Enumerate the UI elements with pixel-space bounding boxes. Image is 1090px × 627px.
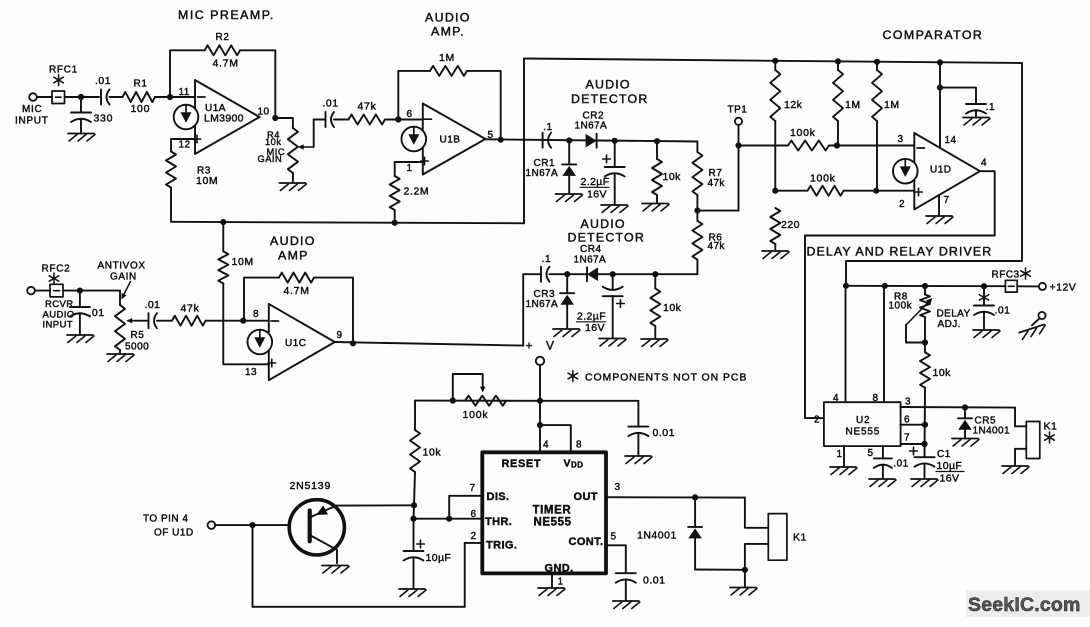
resistor 47k u1c (172, 316, 206, 326)
wire detector node to TP1 (697, 146, 738, 211)
resistor R2 4.7M (205, 45, 240, 55)
terminal TO PIN 4 OF U1D (208, 521, 216, 529)
capacitor .01 mic coupling (100, 90, 102, 105)
ground under K1 right (1002, 465, 1028, 467)
svg-text:100k: 100k (810, 173, 836, 185)
svg-text:LM3900: LM3900 (204, 113, 244, 125)
capacitor 2.2uF 16V detector 1 (614, 141, 616, 167)
wire 47k to pin 8 (206, 320, 269, 322)
svg-text:COMPARATOR: COMPARATOR (883, 28, 984, 42)
diode 1N4001 relay (694, 497, 696, 527)
diode CR3 1N67A to ground (566, 274, 568, 293)
node pin 10 output (272, 115, 278, 121)
svg-text:9: 9 (337, 330, 343, 341)
resistor 12k (774, 61, 776, 70)
wire cap to 47k (157, 320, 172, 322)
wire TRIG stub (465, 543, 483, 607)
svg-text:6: 6 (407, 109, 413, 120)
ground under 330 (68, 133, 94, 135)
resistor 4.7M feedback u1c wire (242, 320, 245, 322)
svg-text:.1: .1 (986, 101, 996, 113)
svg-text:0.01: 0.01 (653, 427, 675, 439)
wire base node down (252, 525, 254, 607)
svg-text:11: 11 (179, 87, 190, 98)
minus sign U1A pin 11 (198, 96, 206, 98)
svg-text:ANTIVOX: ANTIVOX (98, 261, 146, 272)
wire to R6 bottom (655, 273, 697, 275)
svg-text:.01: .01 (323, 98, 339, 110)
svg-text:47k: 47k (358, 101, 377, 113)
wire pin 8 u2 (883, 286, 885, 402)
node 1M b bottom (873, 188, 879, 194)
svg-text:100k: 100k (790, 127, 816, 139)
resistor 10M bias u1c (222, 223, 224, 251)
wire OUT pin 3 row (606, 496, 745, 498)
wire pin 14 from rail (939, 62, 941, 147)
node rail 1M b (874, 59, 880, 65)
svg-text:DETECTOR: DETECTOR (568, 231, 646, 245)
IC U2 NE555 box (824, 402, 901, 446)
wire K1 return (745, 544, 768, 570)
svg-text:.01: .01 (145, 299, 161, 311)
ground under CR5 (952, 438, 978, 440)
asterisk RFC3 (1025, 268, 1027, 279)
inductor RFC3 (1005, 280, 1017, 292)
wire U1C output to detector 2 (335, 342, 523, 346)
svg-text:10k: 10k (933, 367, 952, 379)
svg-text:4.7M: 4.7M (213, 58, 239, 70)
svg-text:RFC3: RFC3 (992, 270, 1020, 281)
svg-text:10µF: 10µF (937, 460, 963, 472)
plus sign 2.2uF det2 (617, 303, 625, 305)
svg-text:CONT.: CONT. (569, 536, 604, 548)
node pin 6 (395, 116, 401, 122)
wire to K1 right (1015, 408, 1026, 427)
svg-text:3: 3 (615, 482, 621, 493)
svg-text:7: 7 (470, 483, 476, 494)
wire RFC1 to node (65, 96, 100, 98)
node diode 1N4001 (692, 494, 698, 500)
node 10k det2 (652, 271, 658, 277)
node pin 8 (240, 318, 246, 324)
svg-text:16V: 16V (585, 322, 605, 334)
asterisk RFC1 not on PCB (58, 75, 60, 86)
wire K1 right return (1015, 449, 1026, 465)
resistor 10k detector 2 (654, 274, 656, 288)
diode CR5 1N4001 (964, 407, 966, 418)
svg-text:DELAY: DELAY (937, 309, 971, 320)
wire pin 7 stub (901, 443, 925, 445)
wire top rail right edge to +12V rail (846, 63, 1022, 286)
ground under .1 (963, 117, 989, 119)
+12V supply rail (846, 285, 1005, 287)
svg-text:1M: 1M (439, 52, 455, 64)
ground under 2N5139 (322, 565, 348, 567)
inductor RFC2 (50, 284, 63, 297)
svg-text:CR4: CR4 (580, 244, 602, 255)
wire 2.2M to bias rail (394, 210, 396, 223)
ground under .01 rfc3 (973, 329, 999, 331)
ground under 0.01 supply (625, 455, 651, 457)
antivox pointer arrow (123, 282, 131, 298)
wire chassis aux (1032, 318, 1040, 325)
node rail 12k (772, 58, 778, 64)
svg-text:AUDIO: AUDIO (581, 217, 626, 231)
ground under 10uF (399, 588, 425, 590)
ground under 10k det2 (641, 338, 667, 340)
svg-text:.01: .01 (995, 305, 1011, 317)
ground under R5 (107, 353, 133, 355)
wire comparator minus row (739, 145, 789, 147)
svg-text:10M: 10M (196, 175, 218, 187)
capacitor .01 u2 pin5 (874, 457, 892, 459)
wire pin 6 stub (901, 424, 925, 426)
2N5139 emitter arrow (316, 505, 328, 515)
svg-text:AMP: AMP (278, 249, 309, 263)
wire U1D output to U2 trigger (805, 171, 995, 418)
capacitor 10uF timer (413, 519, 415, 551)
svg-text:12: 12 (179, 139, 191, 150)
ground under .01 rcvr (67, 334, 93, 336)
ground under u2 pin1 (830, 466, 856, 468)
svg-text:10µF: 10µF (426, 552, 452, 564)
terminal +V (536, 357, 544, 365)
ground under CR3 (553, 328, 579, 330)
wire 1M to output (467, 71, 501, 140)
wire pin 4 u2 (845, 286, 847, 402)
R4 wiper arrow (300, 146, 314, 148)
wire out to K1 (745, 498, 768, 528)
node rail left (843, 283, 849, 289)
svg-text:.01: .01 (894, 459, 909, 470)
svg-text:SeekIC.com: SeekIC.com (968, 594, 1081, 616)
svg-text:2: 2 (471, 531, 477, 542)
svg-text:2.2µF: 2.2µF (577, 311, 606, 323)
capacitor .1 detector 1 (542, 133, 544, 148)
resistor 10k u2 (924, 343, 926, 353)
svg-text:+: + (526, 339, 533, 353)
svg-text:GAIN: GAIN (110, 272, 137, 283)
node .1 branch (937, 85, 943, 91)
resistor 2.2M (390, 176, 400, 210)
svg-text:.01: .01 (89, 307, 105, 319)
wire to R7 (696, 142, 698, 153)
svg-text:1M: 1M (845, 99, 861, 111)
svg-text:DETECTOR: DETECTOR (571, 92, 649, 106)
ground under 220 (762, 250, 788, 252)
relay K1 coil right box (1026, 422, 1040, 459)
svg-text:4: 4 (833, 393, 839, 404)
node R8 bottom (922, 339, 928, 345)
ground under .01 u2 (869, 478, 895, 480)
svg-text:RFC1: RFC1 (49, 65, 78, 76)
svg-text:TP1: TP1 (728, 105, 748, 116)
node base junction (249, 522, 255, 528)
capacitor .01 U1C coupling (135, 320, 149, 322)
svg-text:7: 7 (944, 195, 950, 206)
wire CONT stub (606, 545, 626, 573)
wire 47k to pin 6 (385, 119, 423, 121)
potentiometer R8 100k DELAY ADJ (924, 286, 926, 295)
capacitor 0.01 cont (616, 572, 636, 574)
svg-text:13: 13 (245, 367, 257, 378)
svg-text:INPUT: INPUT (43, 319, 74, 330)
node bias rail 10M (220, 219, 226, 225)
svg-text:K1: K1 (793, 532, 807, 544)
svg-text:COMPONENTS NOT ON PCB: COMPONENTS NOT ON PCB (585, 372, 747, 384)
wire RFC3 to +12V terminal (1017, 285, 1039, 287)
wire U1B output to detector (485, 139, 697, 141)
wire 4.7M to output (314, 278, 353, 344)
wire diode to ground node (695, 569, 745, 571)
svg-text:10k: 10k (663, 302, 682, 314)
resistor R1 100 (123, 92, 155, 102)
plus sign U1B (421, 160, 429, 162)
wire R2 to output node (240, 50, 275, 118)
node CR2 cathode junction (612, 138, 618, 144)
svg-text:7: 7 (904, 433, 910, 444)
svg-text:100k: 100k (889, 301, 913, 312)
svg-text:47k: 47k (181, 303, 200, 315)
svg-text:TRIG.: TRIG. (486, 539, 517, 551)
node collector to THR (410, 516, 416, 522)
wire pin 1 u2 (843, 446, 845, 466)
wire to pin 8 (540, 425, 571, 452)
capacitor .01 rcvr to ground (79, 291, 81, 307)
svg-text:U1D: U1D (930, 165, 952, 176)
svg-text:U1B: U1B (440, 135, 461, 146)
capacitor .01 coupling to U1B (325, 112, 327, 127)
svg-text:47k: 47k (708, 178, 726, 189)
svg-text:OUT: OUT (574, 491, 598, 503)
svg-text:5: 5 (868, 448, 874, 459)
svg-text:K1: K1 (1044, 421, 1058, 433)
svg-text:0.01: 0.01 (643, 575, 665, 587)
svg-text:R1: R1 (134, 79, 148, 90)
potentiometer R5 5000 ANTIVOX GAIN (115, 305, 125, 350)
R8 wiper tie (906, 325, 925, 343)
node CR3 junction (564, 271, 570, 277)
node pin 9 output (350, 340, 356, 346)
terminal chassis aux (1038, 312, 1045, 319)
svg-text:C1: C1 (937, 449, 951, 460)
capacitor 2.2uF 16V detector 2 (612, 274, 614, 290)
plus sign U1C (268, 362, 276, 364)
svg-text:100: 100 (131, 103, 151, 115)
wire pin1 to 2.2M (395, 162, 423, 176)
plus sign 10uF (417, 543, 425, 545)
test point TP1 (738, 125, 740, 146)
wire output to R4 top (275, 118, 293, 128)
svg-text:14: 14 (945, 135, 957, 146)
svg-text:NE555: NE555 (846, 426, 881, 437)
svg-text:330: 330 (94, 113, 114, 125)
svg-text:1N67A: 1N67A (526, 168, 559, 179)
100k pot wiper (453, 374, 483, 401)
svg-text:U1C: U1C (285, 338, 307, 349)
node pin 11 (167, 94, 173, 100)
svg-text:DIS.: DIS. (487, 491, 510, 503)
plus sign U1D (915, 191, 923, 193)
node K1 ground (742, 567, 748, 573)
resistor 1M feedback loop wire (398, 71, 430, 120)
svg-text:3: 3 (898, 134, 904, 145)
svg-text:47k: 47k (708, 241, 726, 252)
ground under C1 (911, 478, 937, 480)
asterisk K1 (1049, 432, 1051, 443)
svg-text:2N5139: 2N5139 (290, 480, 332, 492)
relay K1 coil box (768, 514, 787, 561)
op-amp U1C LM3900 (269, 304, 335, 380)
inductor RFC1 (52, 91, 65, 104)
node +V to pot row (537, 398, 543, 404)
svg-text:INPUT: INPUT (15, 116, 49, 127)
resistor 10k timer (410, 430, 420, 472)
resistor R6 47k (696, 211, 698, 221)
terminal +12V (1039, 283, 1046, 290)
wire pin 7 to ground (938, 195, 940, 215)
wire pin 5 u2 (882, 446, 884, 458)
node rail R8 (922, 283, 928, 289)
svg-text:1M: 1M (884, 99, 900, 111)
wire bottom return (253, 606, 465, 608)
svg-text:R2: R2 (216, 32, 230, 43)
ground under 0.01 cont (613, 600, 639, 602)
wire 100k lower to pin 2 (844, 190, 915, 192)
node 12k bottom (772, 188, 778, 194)
svg-text:3: 3 (905, 397, 911, 408)
wire cap to CR3 node (550, 273, 588, 275)
2N5139 collector lead (310, 505, 414, 517)
wire R4 wiper to .01 cap (314, 120, 326, 148)
wire row to 10k left (414, 401, 416, 430)
svg-text:4: 4 (981, 158, 987, 169)
wire to ground (744, 570, 746, 587)
wire cap to R1 (110, 96, 123, 98)
bias rail +V (171, 222, 524, 224)
node rail .01 (981, 283, 987, 289)
node TP1 junction (735, 142, 741, 148)
svg-text:U2: U2 (856, 415, 870, 426)
capacitor .01 rfc3 (983, 286, 985, 305)
svg-text:4.7M: 4.7M (284, 285, 310, 297)
svg-text:MIC PREAMP.: MIC PREAMP. (178, 8, 275, 22)
svg-text:TIMER: TIMER (533, 504, 572, 516)
svg-text:100k: 100k (463, 409, 489, 421)
svg-text:2: 2 (814, 415, 820, 426)
svg-text:R5: R5 (131, 330, 145, 341)
riser to detector 2 row (522, 274, 524, 345)
svg-text:1N4001: 1N4001 (637, 530, 677, 542)
resistor 4.7M u1c (279, 273, 314, 283)
wire THR row (414, 518, 483, 520)
diode CR1 1N67A to ground (568, 141, 570, 165)
capacitor 0.01 supply (628, 426, 648, 428)
wire comparator plus row (775, 190, 807, 192)
svg-text:AMP.: AMP. (431, 25, 465, 39)
svg-text:10M: 10M (232, 256, 254, 268)
plus sign 2.2uF (603, 158, 611, 160)
svg-text:1N67A: 1N67A (575, 121, 608, 132)
svg-text:+12V: +12V (1050, 282, 1077, 294)
minus sign U1D (917, 147, 925, 149)
node CR5 top (962, 404, 968, 410)
svg-text:2: 2 (899, 199, 905, 210)
wire pot row (415, 400, 540, 402)
svg-text:4: 4 (543, 440, 549, 451)
2N5139 emitter lead (310, 535, 337, 563)
node pin7 tie (921, 441, 927, 447)
resistor 100k upper (788, 141, 829, 151)
capacitor 330 to ground (80, 97, 82, 113)
svg-text:.1: .1 (542, 253, 552, 265)
svg-text:2.2µF: 2.2µF (581, 176, 610, 188)
svg-text:8: 8 (873, 393, 879, 404)
svg-text:8: 8 (576, 440, 582, 451)
svg-text:5000: 5000 (125, 342, 149, 353)
svg-text:1: 1 (407, 163, 413, 174)
ground under U1D pin 7 (926, 215, 952, 217)
wire DIS stub (449, 496, 482, 519)
watermark background (966, 590, 1090, 617)
svg-text:1: 1 (837, 449, 843, 460)
node rcvr junction (77, 288, 83, 294)
node rail pin8 (882, 283, 888, 289)
wire pin12 to R3 (171, 139, 195, 152)
ground under K1 (730, 587, 756, 589)
svg-text:5: 5 (611, 532, 617, 543)
resistor 220 to ground (770, 208, 780, 244)
svg-text:220: 220 (781, 219, 800, 231)
ground under 2.2uF (601, 204, 627, 206)
svg-text:THR.: THR. (485, 516, 512, 528)
node collector row (411, 502, 417, 508)
node R7 R6 junction (694, 208, 700, 214)
svg-text:OF U1D: OF U1D (154, 528, 194, 539)
wire R3 to bias rail (170, 188, 172, 222)
R5 wiper arrow (128, 320, 135, 322)
diode CR2 1N67A (586, 134, 597, 148)
wire cap to 47k (334, 119, 349, 121)
capacitor .1 comparator (940, 88, 976, 104)
svg-text:10k: 10k (265, 137, 282, 147)
diode CR4 1N67A pointing left (586, 267, 588, 281)
resistor 1M feedback (430, 66, 467, 76)
svg-text:10k: 10k (423, 447, 442, 459)
svg-text:1N4001: 1N4001 (973, 426, 1010, 437)
resistor 47k (349, 115, 386, 125)
riser bias rail to top rail (523, 59, 525, 224)
resistor R2 4.7M feedback loop wire (170, 50, 205, 97)
svg-text:10: 10 (258, 107, 270, 118)
wire RFC2 to pot (64, 291, 121, 305)
svg-text:1N67A: 1N67A (526, 299, 559, 310)
wire to pin 4 (539, 401, 541, 453)
svg-text:GAIN: GAIN (258, 154, 283, 164)
terminal RCVR AUDIO INPUT (27, 287, 35, 295)
svg-text:GND.: GND. (545, 562, 574, 574)
node pin4 branch (537, 422, 543, 428)
svg-text:AUDIO: AUDIO (586, 78, 631, 92)
resistor 1M b (876, 62, 878, 70)
ground under 2.2uF det2 (599, 338, 625, 340)
op-amp U1B LM3900 (423, 104, 486, 175)
svg-text:16V: 16V (587, 189, 607, 201)
node THR junction (446, 516, 452, 522)
svg-text:ADJ.: ADJ. (938, 319, 961, 330)
asterisk RFC2 (53, 273, 55, 284)
node mic input junction (78, 94, 84, 100)
